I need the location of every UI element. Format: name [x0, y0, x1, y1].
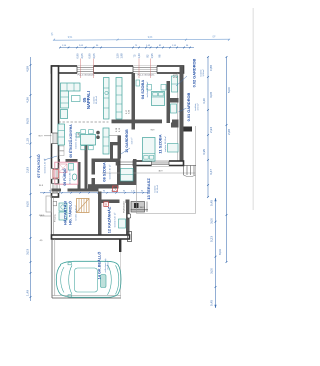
svg-text:2,05: 2,05: [80, 53, 84, 59]
svg-text:13 TERASZ: 13 TERASZ: [146, 178, 151, 200]
svg-text:HÁZTARTÁSI: HÁZTARTÁSI: [63, 201, 68, 225]
svg-text:területe 10,20 m²: területe 10,20 m²: [164, 136, 167, 152]
svg-text:1,80 9: 1,80 9: [39, 215, 45, 217]
svg-text:11 SZOBA: 11 SZOBA: [158, 134, 163, 153]
svg-text:180 9: 180 9: [139, 207, 145, 209]
svg-text:3,95: 3,95: [202, 149, 206, 155]
svg-text:2,05: 2,05: [92, 53, 96, 59]
svg-text:08 SZOBA: 08 SZOBA: [102, 162, 107, 182]
svg-text:0,88: 0,88: [209, 65, 213, 71]
svg-text:Fsz-1 elrendezés: Fsz-1 elrendezés: [138, 74, 156, 77]
svg-text:21,93 m²: 21,93 m²: [156, 185, 159, 194]
svg-text:2,93: 2,93: [209, 127, 213, 133]
svg-text:5,23: 5,23: [209, 236, 213, 242]
svg-text:3,00: 3,00: [209, 268, 213, 274]
svg-text:25,65 m²: 25,65 m²: [95, 96, 98, 105]
svg-text:12 KAZÁNHÁZ: 12 KAZÁNHÁZ: [107, 206, 112, 233]
svg-text:területe 3,80 m²: területe 3,80 m²: [68, 170, 71, 184]
svg-text:Fsz-1 elrendezés: Fsz-1 elrendezés: [78, 74, 96, 77]
svg-text:96 9: 96 9: [151, 130, 155, 132]
svg-text:1,10: 1,10: [131, 190, 135, 192]
svg-text:1,49: 1,49: [25, 290, 29, 296]
svg-text:4,58: 4,58: [25, 66, 29, 72]
svg-text:4,20: 4,20: [202, 98, 206, 104]
svg-text:90: 90: [141, 190, 143, 192]
svg-text:területe 1,59 m²: területe 1,59 m²: [44, 158, 47, 173]
svg-text:8,06: 8,06: [218, 249, 222, 255]
svg-text:3,40 m²: 3,40 m²: [131, 137, 134, 144]
svg-text:09 FÜRDŐ: 09 FÜRDŐ: [62, 168, 67, 186]
svg-text:területe 12,29 m²: területe 12,29 m²: [75, 205, 78, 220]
svg-text:90: 90: [123, 190, 125, 192]
svg-text:04 SZOBA: 04 SZOBA: [140, 80, 145, 100]
svg-text:5,45: 5,45: [209, 300, 213, 306]
svg-text:8,05: 8,05: [25, 118, 29, 124]
svg-text:0,90: 0,90: [76, 53, 80, 59]
svg-text:1,95: 1,95: [150, 53, 154, 59]
svg-text:NAPPALI: NAPPALI: [86, 91, 91, 109]
svg-text:3,47: 3,47: [209, 169, 213, 175]
svg-text:5,00: 5,00: [227, 87, 231, 93]
svg-text:HG. TÁROLÓ: HG. TÁROLÓ: [68, 201, 73, 225]
svg-text:D: D: [105, 204, 107, 207]
svg-text:06 ÉTKEZŐ-KONYHA: 06 ÉTKEZŐ-KONYHA: [68, 124, 73, 158]
svg-text:4,36: 4,36: [25, 97, 29, 103]
svg-text:3,94 m²: 3,94 m²: [197, 103, 200, 110]
svg-text:1,43: 1,43: [137, 53, 141, 59]
svg-text:területe 7,87 m²: területe 7,87 m²: [109, 164, 112, 179]
svg-text:90: 90: [103, 190, 105, 192]
svg-text:Pince lej.: Pince lej.: [54, 214, 56, 222]
svg-text:2,93: 2,93: [25, 167, 29, 173]
svg-text:területe 6,37 m²: területe 6,37 m²: [114, 212, 117, 227]
svg-text:1,50: 1,50: [115, 53, 119, 59]
svg-text:6,00: 6,00: [25, 201, 29, 207]
svg-text:1,98: 1,98: [119, 53, 123, 59]
svg-text:15,00 m²: 15,00 m²: [106, 261, 109, 270]
svg-text:3,08: 3,08: [209, 92, 213, 98]
svg-text:0,90: 0,90: [88, 53, 92, 59]
svg-text:3,03: 3,03: [25, 249, 29, 255]
svg-text:0.02 GARDROB: 0.02 GARDROB: [192, 58, 197, 87]
svg-text:területe 14,41 m²: területe 14,41 m²: [75, 133, 78, 149]
svg-text:1,34: 1,34: [78, 133, 80, 137]
svg-text:1,15: 1,15: [25, 138, 29, 144]
svg-text:9,51: 9,51: [68, 37, 73, 39]
svg-text:3,98 m²: 3,98 m²: [202, 69, 205, 76]
svg-text:Padlásfeljáró: Padlásfeljáró: [124, 200, 126, 212]
svg-text:2,68: 2,68: [227, 129, 231, 135]
svg-text:14 GK.BEÁLLÓ: 14 GK.BEÁLLÓ: [97, 252, 102, 280]
svg-text:0.01 GARDROB: 0.01 GARDROB: [186, 92, 191, 121]
svg-text:területe 11,13 m²: területe 11,13 m²: [146, 81, 149, 97]
svg-text:5,45: 5,45: [209, 200, 213, 206]
svg-text:3,00: 3,00: [209, 218, 213, 224]
svg-text:07 FOLYOSÓ: 07 FOLYOSÓ: [36, 154, 41, 178]
svg-text:9,63: 9,63: [148, 37, 153, 39]
